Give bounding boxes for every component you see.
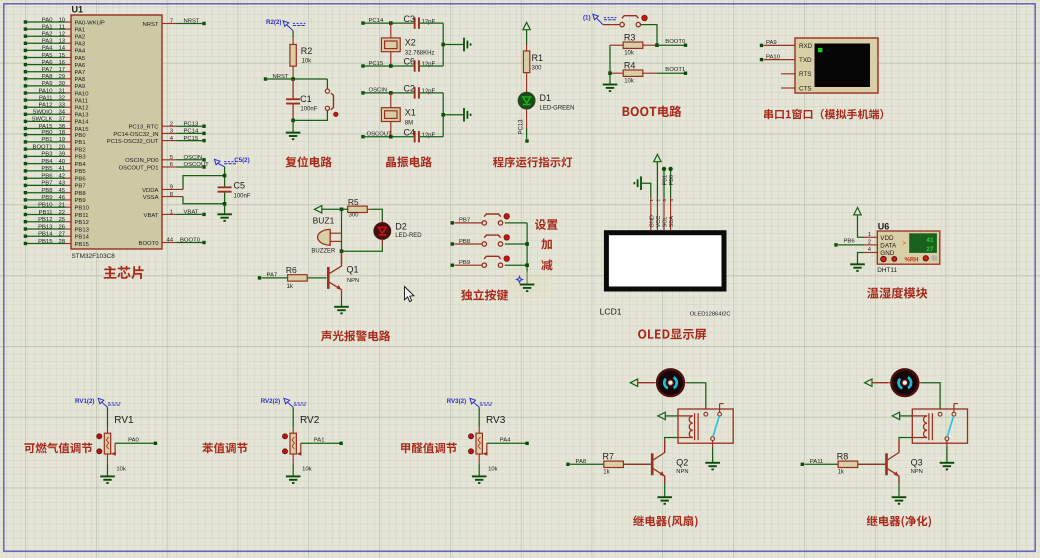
relay body Q3 (912, 409, 967, 443)
wire collector (341, 251, 343, 264)
terminal PB0 (668, 167, 672, 171)
relay coil (678, 416, 693, 438)
wire to BOOT0 terminal (657, 44, 684, 46)
svg-text:8M: 8M (405, 120, 413, 126)
wire button bottom to C1 bottom (293, 110, 327, 120)
power terminal motor (865, 379, 872, 386)
capacitor C2 12pF (414, 87, 416, 98)
svg-text:31: 31 (58, 88, 65, 94)
svg-text:PA9: PA9 (42, 81, 53, 87)
pin RTS stub (781, 73, 795, 75)
push button BOOT (620, 22, 624, 26)
svg-text:PC13: PC13 (519, 119, 525, 135)
ground relay pole (940, 463, 955, 470)
caption minus key (541, 259, 552, 270)
svg-text:R3: R3 (624, 33, 636, 43)
pin PA15 / terminal PA15 (38) (24, 127, 27, 130)
ground alarm (334, 307, 349, 314)
ground keys (520, 285, 535, 292)
svg-text:Q3: Q3 (911, 457, 923, 467)
svg-text:TXD: TXD (799, 57, 812, 64)
pin OLED VCC (2) (656, 198, 658, 231)
svg-text:39: 39 (58, 152, 65, 158)
caption temperature-humidity module (867, 287, 927, 299)
svg-text:45: 45 (58, 188, 65, 194)
svg-text:SDA: SDA (669, 216, 675, 228)
svg-text:1: 1 (868, 232, 871, 238)
svg-text:40: 40 (58, 159, 65, 165)
svg-text:VBAT: VBAT (184, 210, 199, 216)
svg-text:12pF: 12pF (422, 19, 436, 25)
pin PB1 / terminal PB1 (19) (24, 140, 27, 143)
svg-text:PB4: PB4 (41, 159, 53, 165)
svg-text:Q2: Q2 (676, 457, 688, 467)
pin VSSA (8) (162, 196, 183, 198)
wire X2 caps join (442, 23, 444, 66)
svg-text:33: 33 (58, 103, 65, 109)
junction X2 top (389, 21, 393, 25)
svg-text:R4: R4 (624, 61, 636, 71)
svg-text:SWCLK: SWCLK (32, 117, 53, 123)
svg-text:4: 4 (868, 247, 871, 253)
svg-text:PA1: PA1 (314, 438, 325, 444)
pin VBAT (1) / terminal VBAT (162, 213, 177, 215)
wire label RV3(2) (470, 398, 492, 407)
wire OSCOUT to C4 (363, 136, 414, 138)
svg-text:PA4: PA4 (42, 46, 53, 52)
svg-text:PA3: PA3 (42, 39, 53, 45)
svg-text:PB6: PB6 (41, 174, 53, 180)
svg-text:OSCOUT_PD1: OSCOUT_PD1 (119, 165, 159, 171)
wire PB8 button to bus (505, 243, 527, 245)
RV1 wiper arrow (114, 443, 117, 453)
svg-text:VBAT: VBAT (144, 213, 159, 219)
svg-text:PC15: PC15 (184, 136, 199, 142)
svg-text:RV3(2): RV3(2) (447, 398, 467, 405)
svg-text:300: 300 (349, 213, 360, 219)
junction bus PB9 (525, 263, 529, 267)
wire R5 to D2 (372, 209, 383, 220)
crystal X2 32.768KHz (390, 23, 392, 38)
wire VSSA to C5 node (183, 197, 225, 204)
pin U6 VDD (1) (864, 236, 878, 238)
wire RV1 bottom (107, 454, 109, 464)
svg-text:PB9: PB9 (41, 195, 52, 201)
potentiometer RV1 10k (107, 427, 109, 433)
resistor R1 300 (526, 45, 528, 52)
svg-text:PB9: PB9 (75, 198, 86, 204)
relay core bars (694, 413, 696, 440)
DHT11 indicator dots (881, 256, 886, 261)
svg-text:RV1(2): RV1(2) (75, 398, 95, 405)
svg-text:D2: D2 (395, 221, 407, 231)
svg-text:RV2: RV2 (300, 415, 320, 426)
ground Q3 emitter (892, 497, 907, 504)
svg-text:27: 27 (926, 246, 934, 253)
svg-text:R1: R1 (532, 53, 544, 63)
wire top of RV1 (107, 407, 109, 427)
pin OLED GND (1) (650, 198, 652, 231)
pin PB8 / terminal PB8 (45) (24, 191, 27, 194)
wire label C5(2) (214, 159, 236, 167)
ground relay pole (705, 463, 720, 470)
wire GND to ground (858, 253, 864, 265)
capacitor C6 12pF (414, 60, 416, 71)
svg-text:PB0: PB0 (669, 175, 675, 186)
power terminal relay coil (892, 412, 899, 419)
capacitor C4 12pF (414, 131, 416, 142)
caption RV3 (401, 443, 457, 454)
pin PA6 / terminal PA6 (16) (24, 63, 27, 66)
caption reset circuit (285, 156, 331, 167)
svg-text:21: 21 (58, 203, 65, 209)
svg-text:2: 2 (868, 240, 871, 246)
mouse cursor (405, 287, 414, 302)
svg-text:PA14: PA14 (75, 120, 90, 126)
svg-text:NPN: NPN (347, 278, 359, 284)
svg-text:12pF: 12pF (422, 89, 436, 95)
svg-text:14: 14 (58, 46, 65, 52)
svg-text:32.768KHz: 32.768KHz (405, 51, 435, 57)
terminal PB8 (451, 242, 454, 245)
wire RV3 wiper to PA4 (487, 442, 527, 444)
svg-text:U6: U6 (878, 222, 890, 232)
svg-text:PB2: PB2 (75, 147, 86, 153)
svg-text:RV2(2): RV2(2) (261, 398, 281, 405)
svg-text:PA0-WKUP: PA0-WKUP (75, 20, 105, 26)
svg-text:1: 1 (170, 210, 173, 216)
svg-text:%RH: %RH (905, 258, 919, 264)
wire power to coil (900, 415, 913, 417)
svg-text:PA2: PA2 (75, 35, 86, 41)
potentiometer RV3 10k (478, 427, 480, 433)
svg-text:PB3: PB3 (41, 152, 53, 158)
svg-text:R7: R7 (603, 452, 615, 462)
power terminal relay coil (658, 412, 665, 419)
ground RV3 (472, 476, 487, 483)
svg-text:17: 17 (58, 67, 65, 73)
svg-text:PA7: PA7 (42, 67, 53, 73)
wire OLED GND to ground (642, 183, 651, 197)
svg-text:15: 15 (58, 53, 65, 59)
wire RV3 bottom (478, 454, 480, 464)
junction X2 bottom (389, 64, 393, 68)
svg-text:42: 42 (58, 174, 65, 180)
pin PB7 / terminal PB7 (43) (24, 184, 27, 187)
svg-text:28: 28 (58, 239, 65, 245)
svg-text:12pF: 12pF (422, 133, 436, 139)
svg-text:PA9: PA9 (75, 84, 86, 90)
terminal PB1 (662, 167, 666, 171)
RV3 adjust dots (469, 434, 474, 439)
selection highlight around ground (507, 272, 549, 297)
op-amp U1 body STM32F103C8 (71, 15, 162, 249)
svg-text:41: 41 (926, 237, 934, 244)
svg-text:PA8: PA8 (75, 77, 86, 83)
terminal BOOT0 (684, 44, 687, 47)
svg-text:VDDA: VDDA (142, 188, 158, 194)
wire label RV2(2) (284, 398, 306, 407)
power terminal for R1 (523, 22, 530, 29)
caption BOOT circuit (623, 105, 682, 117)
LED D2 LED-RED (374, 223, 391, 240)
svg-text:PA5: PA5 (42, 53, 53, 59)
LED D1 LED-GREEN (518, 92, 535, 109)
svg-text:PB7: PB7 (41, 181, 52, 187)
svg-text:PB5: PB5 (41, 166, 53, 172)
svg-text:12: 12 (58, 32, 65, 38)
pin PA13 / terminal SWDIO (34) (24, 113, 27, 116)
capacitor C5 100nF (218, 186, 232, 188)
pin PC13_RTC (2) / terminal PC13 (162, 125, 177, 127)
svg-text:2: 2 (170, 121, 173, 127)
wire C2 right (420, 92, 443, 94)
svg-text:PB13: PB13 (38, 224, 53, 230)
ground X1 (rotated) (464, 108, 471, 122)
relay contact B with NO pin (952, 412, 956, 416)
wire PB6 to DATA (838, 244, 863, 246)
svg-text:PA0: PA0 (128, 438, 139, 444)
LCD1 OLED display body (604, 230, 727, 291)
terminal PA11 (801, 463, 804, 466)
ground BOOT circuit (603, 85, 618, 92)
svg-text:PA5: PA5 (75, 56, 86, 62)
ground reset circuit (286, 133, 301, 140)
relay blade (cyan) (947, 416, 953, 437)
pin VDDA (9) (162, 188, 183, 190)
push button PB7 (454, 222, 482, 224)
wire pole to ground (946, 441, 948, 448)
svg-text:PC14-OSC32_IN: PC14-OSC32_IN (113, 132, 158, 138)
terminal PA8 (566, 463, 569, 466)
ground below C5 (217, 214, 232, 221)
svg-text:PB6: PB6 (75, 177, 87, 183)
pin PB3 / terminal PB3 (39) (24, 155, 27, 158)
pin PC14-OSC32_IN (3) / terminal PC14 (162, 132, 177, 134)
svg-text:10: 10 (58, 17, 65, 23)
svg-text:30: 30 (58, 81, 65, 87)
svg-text:PA1: PA1 (42, 24, 53, 30)
pin PB6 / terminal PB6 (42) (24, 177, 27, 180)
push button reset (vertical) (325, 89, 329, 93)
wire LED to PC13 terminal (526, 128, 528, 139)
svg-text:GND: GND (880, 250, 894, 257)
ground RV2 (286, 476, 301, 483)
DHT11 screen (909, 233, 937, 253)
pin PC15-OSC32_OUT (4) / terminal PC15 (162, 140, 177, 142)
svg-text:SWDIO: SWDIO (33, 110, 53, 116)
svg-text:PA0: PA0 (42, 17, 53, 23)
svg-text:DHT11: DHT11 (877, 267, 897, 274)
svg-text:44: 44 (166, 238, 173, 244)
svg-text:R6: R6 (286, 265, 297, 275)
wire power to motor (872, 382, 888, 384)
pin PA3 / terminal PA3 (13) (24, 42, 27, 45)
svg-text:C5: C5 (234, 181, 246, 191)
svg-text:C1: C1 (300, 94, 312, 104)
junction bus PB8 (525, 242, 529, 246)
svg-text:PC15-OSC32_OUT: PC15-OSC32_OUT (107, 139, 159, 145)
caption main chip (104, 266, 144, 279)
wire buzzer rail (341, 209, 343, 251)
relay core bars (928, 413, 930, 440)
RV2 adjust dots (283, 434, 288, 439)
svg-text:PA4: PA4 (75, 49, 86, 55)
terminal OSCOUT (361, 135, 364, 138)
svg-text:C4: C4 (404, 127, 416, 137)
wire label (1) (593, 14, 617, 24)
svg-text:VDD: VDD (880, 235, 894, 242)
caption OLED display (638, 329, 706, 340)
svg-text:PB10: PB10 (75, 206, 90, 212)
relay coil (912, 416, 927, 438)
svg-text:GND: GND (649, 215, 655, 227)
transistor Q2 NPN (620, 463, 651, 465)
potentiometer RV2 10k (292, 427, 294, 433)
wire C3 right (420, 22, 443, 24)
module U6 DHT11 body (877, 231, 940, 264)
wire emitter to ground (898, 483, 900, 497)
pin PA11 / terminal PA11 (32) (24, 98, 27, 101)
ground X2 (rotated) (464, 38, 471, 52)
relay pole contact C (945, 437, 949, 441)
svg-text:PA12: PA12 (39, 103, 53, 109)
junction BOOT0 node (655, 43, 659, 47)
pin PB9 / terminal PB9 (46) (24, 198, 27, 201)
relay contact A (938, 412, 942, 416)
relay contact B with NO pin (718, 412, 722, 416)
caption crystal circuit (386, 156, 432, 167)
RV3 wiper arrow (485, 443, 488, 453)
pin PA4 / terminal PA4 (14) (24, 49, 27, 52)
pin CTS stub (781, 87, 795, 89)
svg-text:>: > (903, 240, 907, 247)
wire OSCIN to C2 (363, 92, 414, 94)
pin NRST (7) (162, 23, 177, 25)
wire RV2 bottom (292, 454, 294, 464)
pin PA7 / terminal PA7 (17) (24, 70, 27, 73)
svg-text:PA13: PA13 (75, 113, 90, 119)
svg-text:PA7: PA7 (75, 70, 86, 76)
caption 继电器(风扇) (633, 515, 697, 527)
svg-text:BUZZER: BUZZER (311, 248, 336, 254)
wire to ground BOOT (609, 73, 611, 84)
svg-text:PA8: PA8 (42, 74, 53, 80)
svg-text:RV1: RV1 (114, 415, 134, 426)
svg-text:100nF: 100nF (300, 107, 317, 113)
relay body Q2 (678, 409, 733, 443)
svg-text:PA10: PA10 (39, 88, 54, 94)
push button PB9 (454, 264, 482, 266)
wire D2 to collector node (381, 239, 383, 245)
svg-text:12pF: 12pF (422, 62, 436, 68)
svg-text:PB4: PB4 (75, 162, 87, 168)
resistor R2 10k (292, 38, 294, 45)
svg-text:BOOT0: BOOT0 (139, 241, 160, 247)
svg-text:10k: 10k (302, 466, 312, 472)
svg-text:PB12: PB12 (38, 217, 52, 223)
svg-text:PB1: PB1 (75, 140, 86, 146)
terminal PA9 (760, 44, 763, 47)
svg-text:300: 300 (532, 65, 543, 71)
terminal PC14 (361, 21, 364, 24)
ground DHT11 (850, 264, 865, 271)
wire VDDA to C5 node (183, 176, 225, 190)
terminal PA0 (154, 442, 157, 445)
svg-text:10k: 10k (116, 466, 126, 472)
wire to ground X2 (443, 44, 464, 46)
relay contact A (704, 412, 708, 416)
terminal PB7 (451, 221, 454, 224)
svg-text:PA6: PA6 (42, 60, 53, 66)
wire C5 node vertical (224, 167, 226, 187)
caption RV1 (24, 442, 92, 453)
svg-text:38: 38 (58, 124, 65, 130)
svg-text:1k: 1k (603, 469, 610, 475)
wire to ground X1 (443, 114, 464, 116)
svg-text:PB5: PB5 (75, 169, 87, 175)
svg-text:37: 37 (58, 117, 65, 123)
svg-text:RV3: RV3 (486, 415, 506, 426)
wire PA9 to RXD (764, 44, 795, 46)
pin PB10 / terminal PB10 (21) (24, 206, 27, 209)
pin PB5 / terminal PB5 (41) (24, 169, 27, 172)
wire to ground (292, 120, 294, 132)
junction X2 join (441, 43, 445, 47)
pin PA9 / terminal PA9 (30) (24, 84, 27, 87)
wire PB7 button to bus (505, 222, 527, 224)
wire button right to BOOT0 node (640, 25, 657, 46)
svg-text:PB12: PB12 (75, 220, 89, 226)
pin PA5 / terminal PA5 (15) (24, 56, 27, 59)
svg-text:PB13: PB13 (75, 227, 90, 233)
svg-text:PA10: PA10 (75, 91, 90, 97)
svg-text:C5(2): C5(2) (234, 157, 249, 164)
pin OLED SDA (4) (670, 198, 672, 231)
svg-text:20: 20 (58, 144, 65, 150)
svg-text:1k: 1k (838, 469, 845, 475)
svg-text:19: 19 (58, 137, 65, 143)
svg-text:U1: U1 (72, 5, 84, 15)
svg-text:PB11: PB11 (75, 213, 89, 219)
junction C1/button (291, 119, 295, 123)
svg-text:13: 13 (58, 39, 65, 45)
svg-text:NRST: NRST (184, 19, 200, 25)
svg-text:PC13: PC13 (184, 121, 199, 127)
wire power to coil (665, 415, 678, 417)
svg-text:34: 34 (58, 110, 65, 116)
terminal PA10 (760, 58, 763, 61)
svg-text:43: 43 (58, 181, 65, 187)
svg-text:32: 32 (58, 95, 65, 101)
svg-text:C6: C6 (404, 57, 416, 67)
wire PC15 to C6 (363, 65, 414, 67)
svg-text:PC14: PC14 (184, 129, 199, 135)
pin PA10 / terminal PA10 (31) (24, 91, 27, 94)
svg-text:PB0: PB0 (75, 133, 87, 139)
wire PC14 to C3 (363, 22, 414, 24)
wire label RV1(2) (98, 398, 120, 407)
wire reset button branch (326, 79, 328, 89)
junction X1 bottom (389, 135, 393, 139)
svg-text:PA2: PA2 (42, 32, 53, 38)
pin PB0 / terminal PB0 (18) (24, 133, 27, 136)
wire to BOOT1 terminal (657, 72, 684, 74)
svg-text:PA12: PA12 (75, 106, 89, 112)
pin OSCIN_PD0 (5) / terminal OSCIN (162, 159, 177, 161)
svg-text:PA15: PA15 (39, 124, 54, 130)
pin PA2 / terminal PA2 (12) (24, 35, 27, 38)
